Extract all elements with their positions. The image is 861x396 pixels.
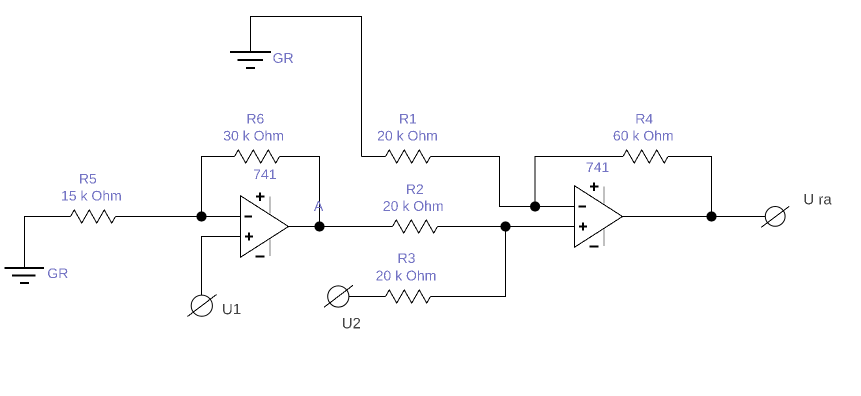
terminal U ra	[761, 206, 789, 227]
resistor R5	[71, 210, 116, 223]
label R5 value	[62, 190, 121, 200]
resistor R2	[393, 220, 438, 233]
wire: node to op-amp 2 inverting input	[535, 206, 574, 208]
ground GR (top)	[230, 52, 271, 68]
junction: op-amp 2 inverting input node	[530, 201, 540, 211]
wire: R5 to op-amp 1 inverting input	[116, 216, 241, 218]
label U1	[223, 304, 240, 314]
wire: R2 to summing node	[438, 226, 506, 228]
label U2	[343, 318, 360, 329]
label R6 value	[224, 130, 283, 140]
label R3	[399, 253, 415, 263]
label R1	[400, 114, 416, 124]
label 741 (op-amp 1)	[254, 170, 276, 180]
label U ra	[805, 194, 832, 204]
wire: summing node to op-amp 2 non-inverting input	[506, 226, 575, 228]
resistor R4	[623, 150, 668, 163]
wire: node A to R2	[320, 226, 393, 228]
label R2 value	[384, 201, 443, 211]
wire: R6 feedback right side down to node A	[280, 157, 320, 227]
wire: R3 right lead up to summing node	[431, 227, 506, 297]
op-amp 741 #2	[575, 182, 623, 247]
label R4	[636, 114, 652, 124]
wire: op-amp 1 non-inverting input down to U1	[202, 237, 241, 296]
label R4 value	[614, 130, 673, 140]
label 741 (op-amp 2)	[587, 162, 609, 172]
label GR (top ground)	[273, 53, 293, 63]
ground GR (left)	[5, 268, 45, 283]
label R5	[80, 174, 96, 184]
label R1 value	[378, 130, 437, 140]
label GR (left ground)	[48, 268, 68, 278]
wire: top ground up, across, and down to R1	[251, 17, 362, 157]
resistor R1	[386, 150, 431, 163]
junction: summing node	[500, 221, 510, 231]
wire: U2 to R3	[349, 296, 386, 298]
label node A	[314, 201, 323, 211]
terminal U2	[324, 285, 353, 307]
wire: R4 feedback right side down to output node	[668, 157, 712, 217]
op-amp 741 #1	[241, 192, 289, 257]
junction: output node	[706, 211, 716, 221]
wire: left ground up to R5	[25, 217, 71, 268]
wire: op-amp 2 output to terminal U ra	[623, 216, 766, 218]
resistor R6	[235, 150, 280, 163]
wire: R4 feedback left side	[535, 157, 623, 207]
junction: node A	[314, 221, 324, 231]
label R6	[247, 114, 263, 124]
label R2	[407, 184, 423, 194]
wire: R1 left lead	[362, 156, 386, 158]
wire: op-amp 1 output to node A	[289, 226, 320, 228]
terminal U1	[188, 295, 217, 317]
label R3 value	[376, 270, 435, 280]
resistor R3	[386, 290, 431, 303]
wire: R1 right lead down to op-amp 2 inverting node	[431, 157, 536, 207]
junction: op-amp 1 inverting input node	[196, 211, 206, 221]
wire: R6 feedback left side	[202, 157, 235, 217]
